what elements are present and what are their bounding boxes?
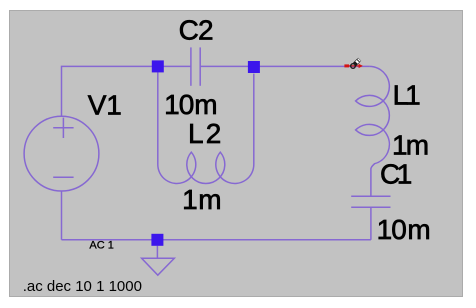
svg-text:V1: V1 bbox=[88, 90, 122, 121]
svg-text:.ac dec 10 1 1000: .ac dec 10 1 1000 bbox=[23, 278, 142, 295]
svg-text:10m: 10m bbox=[164, 89, 217, 120]
svg-text:C1: C1 bbox=[380, 159, 412, 190]
capacitor C1 bottom plate bbox=[351, 206, 390, 208]
svg-text:1m: 1m bbox=[182, 184, 221, 215]
current probe red wire highlight bbox=[344, 64, 363, 68]
node junction square J2 top-right bbox=[248, 61, 260, 73]
node junction square J3 bottom (ground node) bbox=[151, 234, 163, 246]
node junction square J1 top-left bbox=[152, 60, 164, 72]
capacitor C2 left plate bbox=[190, 47, 192, 85]
capacitor C1 top plate bbox=[351, 195, 390, 197]
ground symbol stem bbox=[156, 246, 158, 259]
V1 plus sign bbox=[53, 118, 73, 138]
wire top rail left segment (V1 top to C2 left plate) bbox=[62, 66, 191, 116]
wire C1 bottom lead bbox=[370, 207, 372, 240]
svg-text:L1: L1 bbox=[393, 80, 421, 111]
wire bottom rail bbox=[62, 239, 371, 241]
svg-text:10m: 10m bbox=[377, 214, 431, 245]
ground symbol triangle bbox=[142, 258, 175, 275]
wire top rail right segment (C2 right plate to L1 entry) bbox=[200, 65, 369, 67]
V1 minus sign bbox=[53, 176, 73, 178]
svg-text:1m: 1m bbox=[392, 130, 429, 161]
inductor L1 (vertical loop coil) bbox=[356, 66, 390, 196]
wire V1 bottom lead bbox=[61, 191, 63, 240]
current probe clamp icon bbox=[351, 58, 362, 69]
svg-text:AC 1: AC 1 bbox=[89, 240, 113, 252]
svg-text:C2: C2 bbox=[179, 15, 214, 46]
voltage source V1 circle bbox=[24, 116, 99, 191]
inductor L2 (loop coil between junctions) bbox=[158, 72, 254, 183]
capacitor C2 right plate bbox=[199, 47, 201, 85]
